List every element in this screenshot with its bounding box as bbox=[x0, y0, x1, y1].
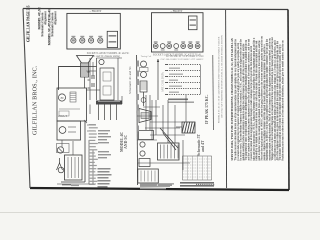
svg-text:OSC PAD ANT TRIMMER SETTINGS F: OSC PAD ANT TRIMMER SETTINGS FOR ALL CHA… bbox=[221, 35, 224, 118]
svg-text:SOCKET LAYOUT MODEL 4C and 5C: SOCKET LAYOUT MODEL 4C and 5C bbox=[87, 52, 130, 55]
svg-text:LP 3H 3HL 4T 5T IF PEAK 175 K: LP 3H 3HL 4T 5T IF PEAK 175 KC bbox=[166, 55, 204, 58]
svg-text:MODEL 4C: MODEL 4C bbox=[120, 132, 124, 152]
svg-text:→FRONT: →FRONT bbox=[89, 9, 102, 13]
svg-text:Replacement parts may be order: Replacement parts may be ordered direct … bbox=[282, 40, 285, 161]
svg-text:Schematic 4C and 5C: Schematic 4C and 5C bbox=[128, 66, 132, 94]
svg-text:MODELS 3C 4C 5C 5T 4T ALIGNMEN: MODELS 3C 4C 5C 5T 4T ALIGNMENT AND VOLT… bbox=[217, 36, 220, 123]
svg-text:Schematic 5T: Schematic 5T bbox=[197, 133, 201, 156]
svg-text:ANT. COIL DATA: ANT. COIL DATA bbox=[162, 72, 165, 92]
svg-text:SERVICE DATA, TWO TUBE SUPERHE: SERVICE DATA, TWO TUBE SUPERHETERODYNE, … bbox=[231, 38, 234, 160]
svg-text:and 4T: and 4T bbox=[201, 140, 205, 152]
svg-text:→FRONT: →FRONT bbox=[170, 9, 183, 13]
svg-text:AND 5C: AND 5C bbox=[124, 135, 128, 149]
svg-text:4C and 5C chassis wiring: 4C and 5C chassis wiring bbox=[92, 55, 120, 58]
svg-text:Alignment: Alignment bbox=[53, 11, 57, 25]
svg-text:GILFILLAN BROS., INC.: GILFILLAN BROS., INC. bbox=[31, 65, 38, 135]
svg-text:IF PEAK 175 KC.: IF PEAK 175 KC. bbox=[205, 95, 209, 124]
svg-text:GILFILLAN PAGE 2-5: GILFILLAN PAGE 2-5 bbox=[27, 5, 31, 42]
